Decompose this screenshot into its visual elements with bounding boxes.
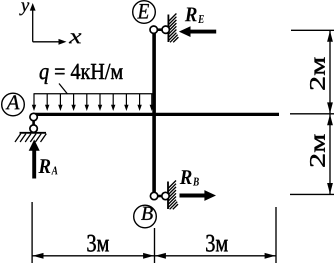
support E wall circle	[162, 26, 169, 33]
dimension line right	[329, 31, 331, 194]
support A ground hatching	[15, 134, 46, 142]
dimension label 3m right	[206, 235, 228, 252]
node circle E	[133, 1, 156, 24]
label R_A	[38, 159, 50, 173]
dimension label 2m bottom	[310, 134, 325, 166]
distributed load line	[34, 93, 155, 95]
support A ground line	[20, 132, 47, 134]
load label q = 4kN/m	[40, 64, 123, 84]
y axis	[30, 3, 36, 42]
column (vertical member)	[152, 32, 156, 195]
support B wall line	[167, 182, 169, 210]
support E wall line	[167, 15, 169, 43]
support B link	[154, 195, 166, 198]
dimension extension line bottom right	[290, 193, 334, 195]
support E wall hatching	[168, 14, 178, 43]
support B wall hatching	[168, 181, 178, 210]
node circle A	[2, 93, 25, 116]
dimension arrows bottom	[33, 253, 276, 259]
label y	[19, 2, 29, 15]
dimension extension line mid right	[290, 113, 334, 115]
dimension label 2m top	[310, 57, 325, 89]
load label leader line	[59, 84, 68, 95]
support E link	[154, 28, 167, 31]
support E pin circle	[150, 26, 157, 33]
support A pin circle	[30, 113, 37, 120]
reaction arrow R_B	[180, 190, 217, 201]
reaction arrow R_A	[29, 140, 40, 179]
dimension extension line top right	[291, 29, 334, 31]
dimension extension line middle	[154, 228, 156, 263]
support B wall circle	[162, 192, 169, 199]
x axis	[33, 39, 67, 45]
support A roller circle	[30, 125, 37, 132]
reaction arrow R_E	[179, 26, 216, 37]
dimension line bottom	[32, 255, 276, 257]
label R_E	[185, 8, 197, 22]
dimension extension line right	[275, 207, 277, 263]
dimension extension line left	[31, 202, 33, 263]
dimension arrows right	[327, 31, 333, 194]
label x	[69, 33, 82, 43]
support B pin circle	[150, 192, 157, 199]
dimension label 3m left	[87, 235, 109, 252]
distributed load arrows	[32, 94, 154, 111]
beam (horizontal member)	[33, 113, 279, 116]
node circle B	[134, 205, 157, 228]
support A link	[32, 117, 35, 129]
label R_B	[180, 170, 192, 184]
